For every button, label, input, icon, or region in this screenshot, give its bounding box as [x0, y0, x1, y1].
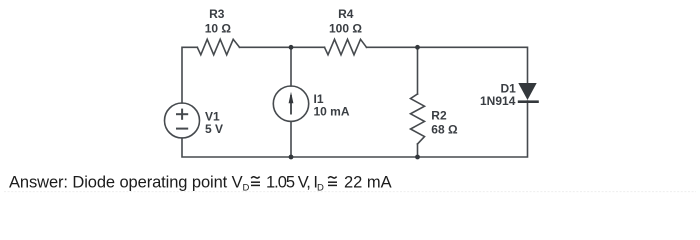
faint scan artifact line	[4, 191, 696, 193]
wire: I1 bottom terminal down to node D	[290, 121, 292, 157]
I1 arrow (pointing up)	[289, 92, 294, 115]
junction node A (top, I1 branch)	[289, 45, 294, 50]
wire: node A to R4 left end	[291, 46, 325, 48]
svg-text:68 Ω: 68 Ω	[431, 123, 458, 137]
wire: node A down to I1 top terminal	[290, 47, 292, 86]
svg-text:1.05 V, ID: 1.05 V, ID	[266, 173, 324, 193]
svg-text:10 mA: 10 mA	[314, 104, 350, 118]
svg-text:Answer: Diode operating point: Answer: Diode operating point VD	[9, 173, 250, 193]
diode D1 cathode bar	[518, 100, 539, 103]
current source I1 circle	[273, 86, 308, 121]
diode D1 (triangle pointing down)	[518, 83, 536, 100]
voltage source V1 circle	[165, 103, 200, 138]
wire: R3 right end to node A	[240, 46, 292, 48]
wire: D1 cathode down to bottom-right corner to node C	[418, 101, 528, 157]
junction node D (bottom, I1 branch)	[289, 155, 294, 160]
V1 plus sign	[176, 109, 188, 120]
svg-text:100 Ω: 100 Ω	[329, 22, 362, 36]
svg-text:22 mA: 22 mA	[344, 173, 392, 191]
wire: node B down to R2 top	[417, 47, 419, 94]
svg-text:10 Ω: 10 Ω	[205, 22, 232, 36]
svg-text:1N914: 1N914	[480, 94, 516, 108]
resistor R3	[197, 39, 239, 55]
svg-text:R4: R4	[338, 7, 354, 21]
resistor R4	[325, 39, 367, 55]
congruent-approx symbol 2	[328, 177, 337, 186]
wire: node B to top-right corner down to D1 anode	[418, 47, 528, 84]
wire: V1 top terminal up left rail to R3 left end	[182, 47, 197, 103]
svg-text:R2: R2	[431, 109, 447, 123]
resistor R2	[411, 94, 425, 144]
V1 minus sign	[176, 128, 188, 130]
congruent-approx symbol 1	[251, 177, 260, 186]
junction node B (top, R2 branch)	[415, 45, 420, 50]
wire: R2 bottom to node C	[417, 144, 419, 157]
wire: R4 right end to node B	[367, 46, 418, 48]
svg-text:R3: R3	[209, 7, 225, 21]
svg-text:5 V: 5 V	[205, 122, 223, 136]
junction node C (bottom, R2 branch)	[415, 155, 420, 160]
wire: node C to node D (bottom rail)	[291, 156, 418, 158]
wire: node D to bottom-left corner up to V1 bottom terminal	[182, 138, 291, 157]
